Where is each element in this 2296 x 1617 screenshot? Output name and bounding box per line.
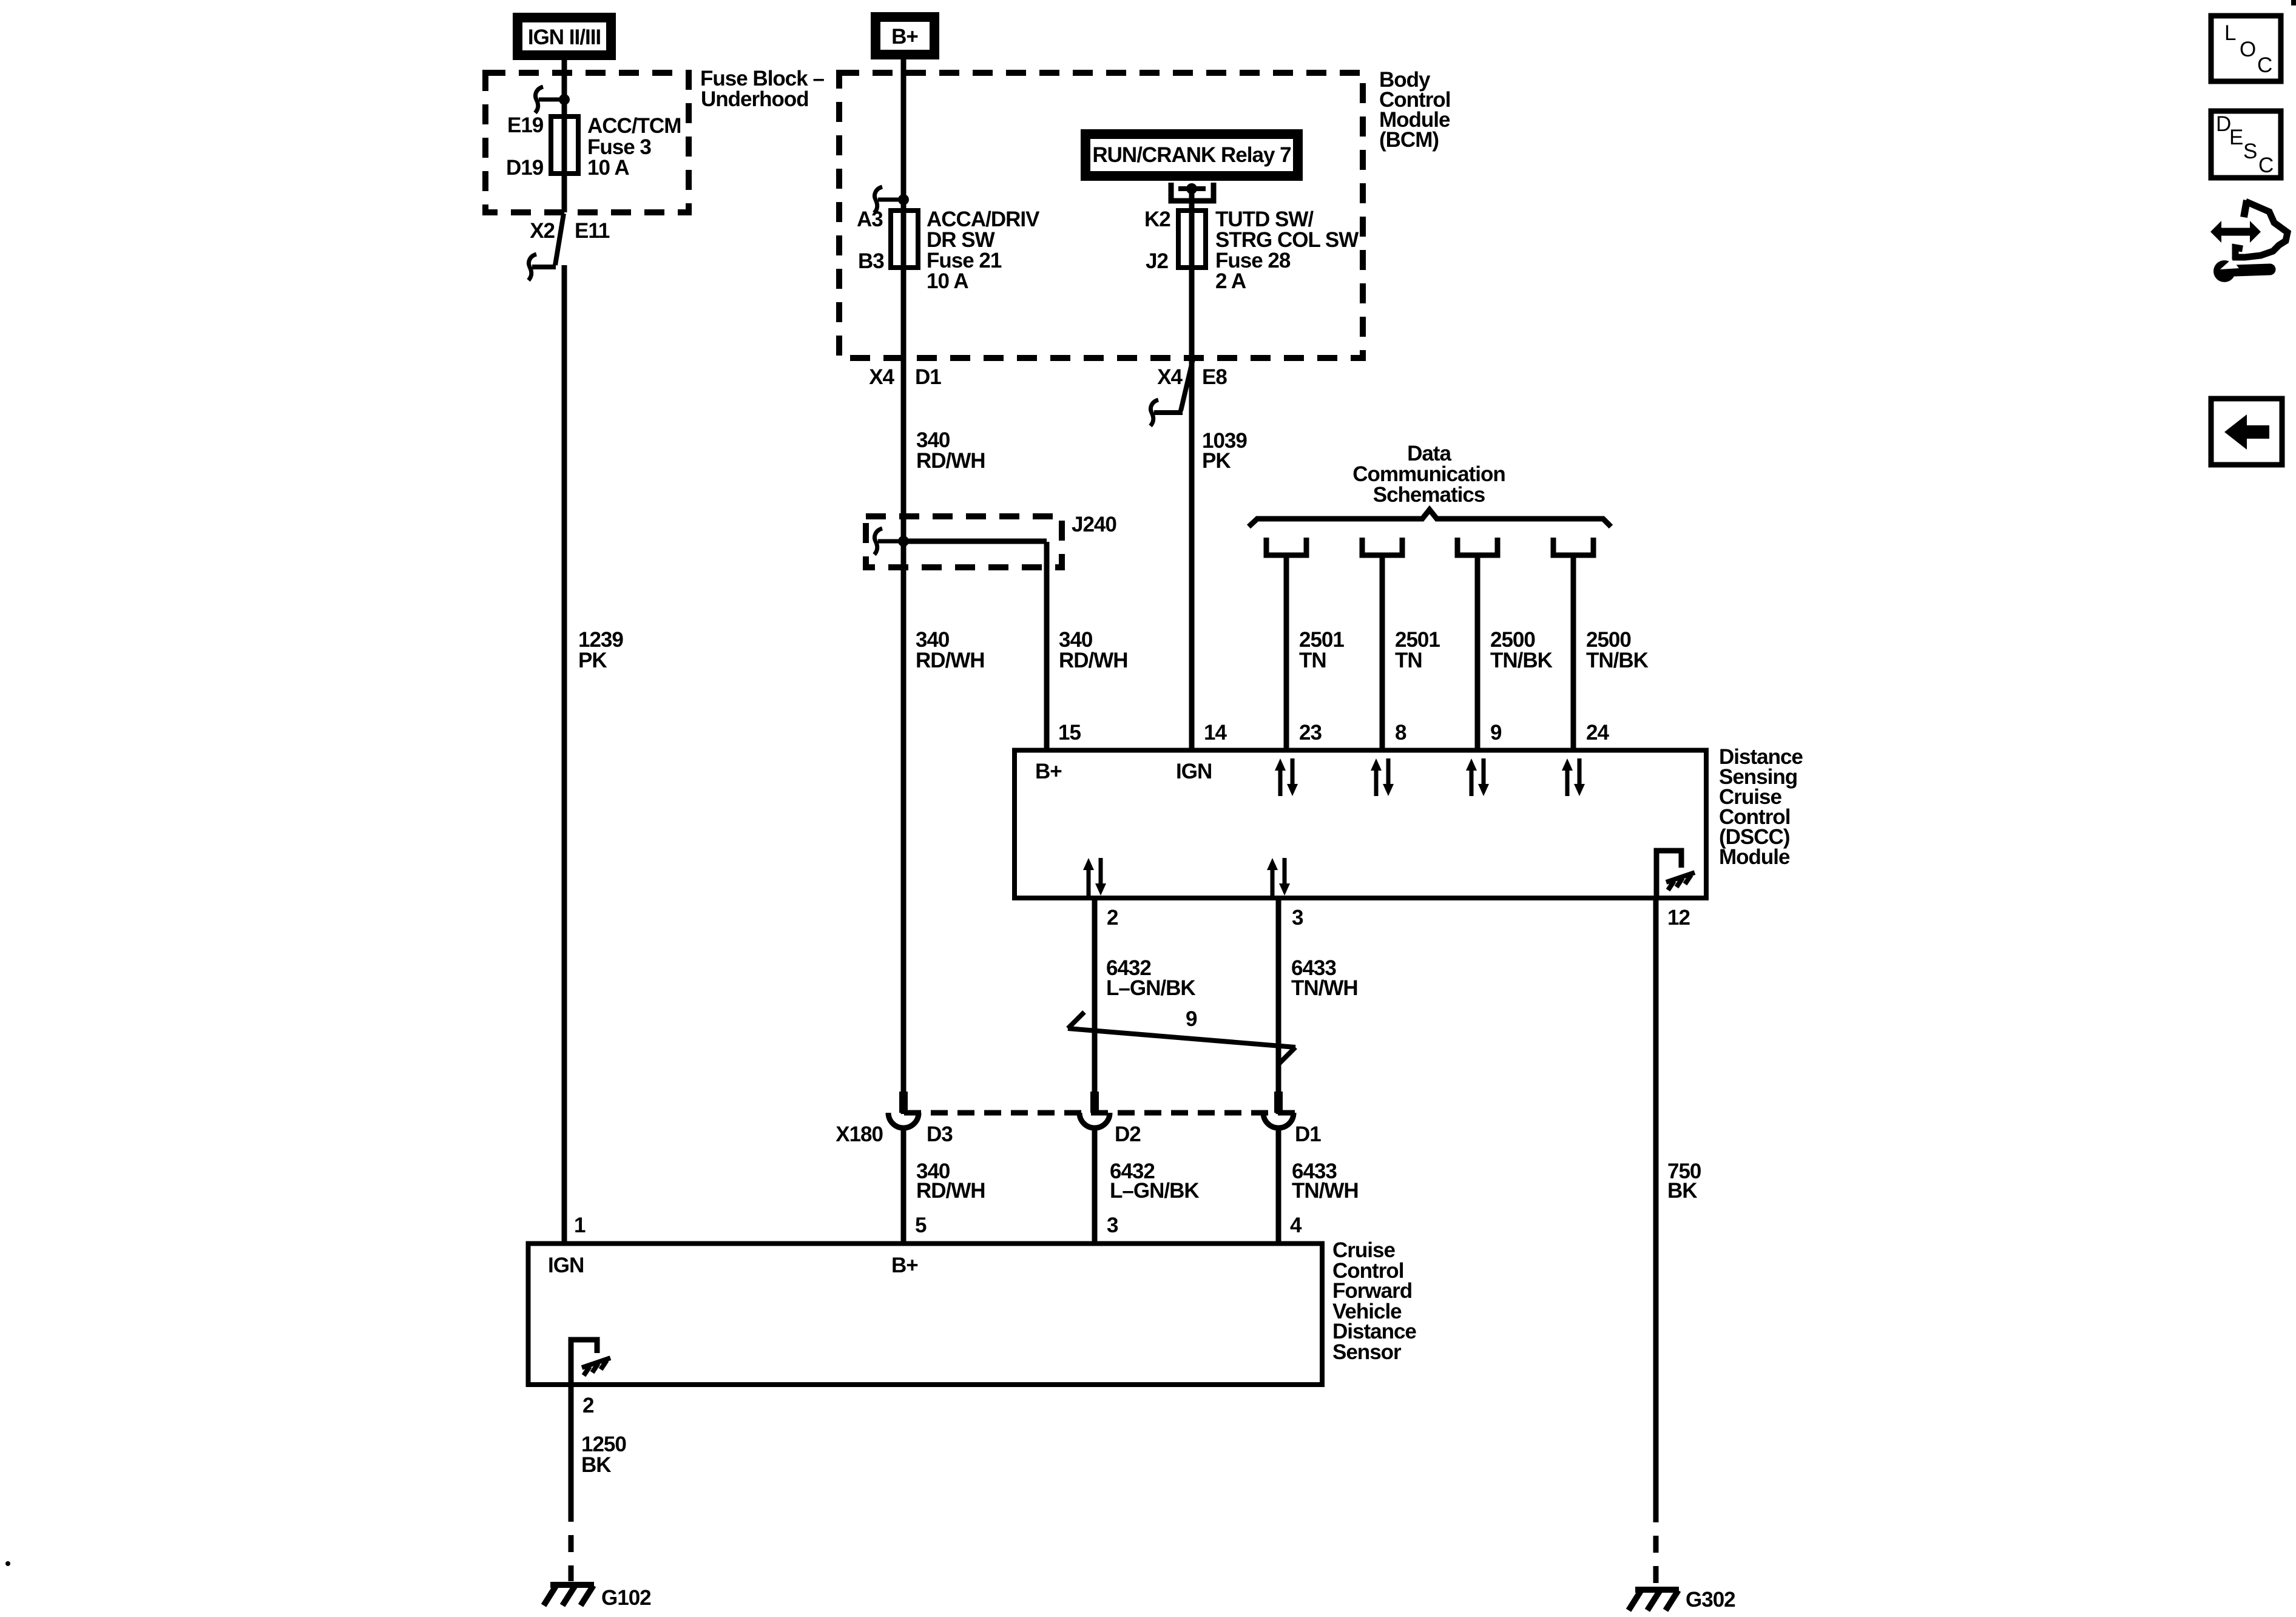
svg-text:TN/BK: TN/BK: [1586, 649, 1649, 672]
svg-text:9: 9: [1490, 721, 1502, 744]
svg-text:J240: J240: [1072, 513, 1116, 536]
svg-text:O: O: [2240, 38, 2256, 61]
svg-text:D3: D3: [927, 1122, 953, 1146]
svg-text:RUN/CRANK Relay 7: RUN/CRANK Relay 7: [1092, 143, 1291, 167]
svg-text:RD/WH: RD/WH: [916, 649, 985, 672]
svg-text:24: 24: [1586, 721, 1609, 744]
svg-text:IGN: IGN: [1176, 760, 1212, 783]
svg-text:15: 15: [1058, 721, 1081, 744]
svg-text:TN/WH: TN/WH: [1291, 976, 1358, 1000]
svg-text:5: 5: [915, 1214, 927, 1237]
svg-text:X180: X180: [836, 1122, 883, 1146]
svg-text:S: S: [2243, 140, 2257, 163]
svg-text:4: 4: [1290, 1214, 1302, 1237]
svg-text:E8: E8: [1202, 365, 1227, 389]
svg-text:9: 9: [1186, 1007, 1197, 1031]
svg-text:TN/WH: TN/WH: [1292, 1179, 1359, 1203]
svg-text:IGN: IGN: [548, 1254, 584, 1277]
svg-text:TN/BK: TN/BK: [1490, 649, 1553, 672]
svg-text:E11: E11: [575, 219, 610, 243]
svg-text:L–GN/BK: L–GN/BK: [1106, 976, 1195, 1000]
svg-text:ACC/TCM: ACC/TCM: [587, 114, 681, 138]
svg-text:X4: X4: [869, 365, 894, 389]
svg-text:D2: D2: [1115, 1122, 1141, 1146]
svg-text:RD/WH: RD/WH: [916, 1179, 985, 1203]
svg-text:PK: PK: [1202, 449, 1231, 473]
svg-text:L: L: [2224, 21, 2236, 45]
svg-text:B+: B+: [891, 1254, 918, 1277]
svg-text:RD/WH: RD/WH: [916, 449, 985, 473]
svg-text:8: 8: [1395, 721, 1406, 744]
svg-text:TN: TN: [1299, 649, 1326, 672]
svg-text:X2: X2: [530, 219, 555, 243]
svg-text:BK: BK: [581, 1453, 611, 1477]
svg-text:B3: B3: [858, 249, 884, 273]
svg-text:RD/WH: RD/WH: [1059, 649, 1128, 672]
svg-text:J2: J2: [1146, 249, 1168, 273]
svg-text:2 A: 2 A: [1215, 269, 1246, 293]
svg-text:A3: A3: [857, 208, 883, 231]
svg-text:B+: B+: [891, 25, 918, 49]
svg-text:10 A: 10 A: [587, 156, 629, 180]
svg-text:IGN II/III: IGN II/III: [528, 25, 601, 49]
svg-text:K2: K2: [1144, 208, 1170, 231]
svg-text:G302: G302: [1686, 1588, 1735, 1612]
svg-text:Module: Module: [1719, 845, 1790, 869]
svg-text:2: 2: [582, 1394, 594, 1417]
svg-text:1: 1: [574, 1214, 586, 1237]
svg-text:BK: BK: [1667, 1179, 1697, 1203]
svg-text:E: E: [2229, 126, 2243, 149]
svg-text:E19: E19: [507, 113, 544, 137]
svg-text:10 A: 10 A: [927, 269, 968, 293]
svg-text:3: 3: [1292, 906, 1303, 930]
svg-text:X4: X4: [1157, 365, 1183, 389]
svg-text:TN: TN: [1395, 649, 1422, 672]
svg-text:G102: G102: [601, 1586, 651, 1610]
svg-text:C: C: [2258, 154, 2274, 177]
svg-text:2: 2: [1107, 906, 1118, 930]
svg-text:PK: PK: [578, 649, 607, 672]
svg-text:14: 14: [1204, 721, 1227, 744]
svg-text:L–GN/BK: L–GN/BK: [1110, 1179, 1199, 1203]
svg-text:Schematics: Schematics: [1373, 483, 1485, 507]
svg-text:D19: D19: [506, 156, 544, 180]
svg-text:3: 3: [1107, 1214, 1118, 1237]
svg-text:C: C: [2257, 53, 2272, 77]
svg-text:D1: D1: [1295, 1122, 1321, 1146]
svg-text:(BCM): (BCM): [1379, 128, 1439, 152]
svg-text:Sensor: Sensor: [1332, 1340, 1402, 1364]
svg-text:23: 23: [1299, 721, 1322, 744]
svg-text:D1: D1: [915, 365, 941, 389]
svg-text:12: 12: [1667, 906, 1690, 930]
svg-text:Underhood: Underhood: [701, 87, 809, 111]
svg-text:B+: B+: [1035, 760, 1062, 783]
